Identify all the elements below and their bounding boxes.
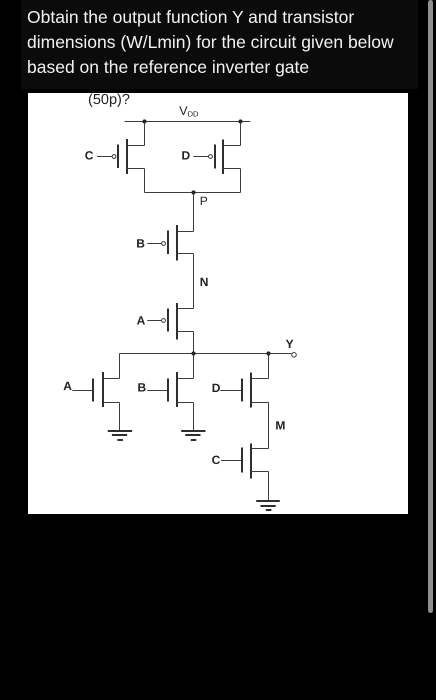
svg-text:B: B [138, 380, 147, 394]
wire A source to ground [119, 403, 121, 431]
wire A drain down to Y rail [193, 332, 195, 354]
source stub [223, 145, 241, 147]
svg-text:Y: Y [286, 337, 294, 351]
ground B [181, 430, 205, 432]
transistor B (NMOS bottom-middle) [138, 354, 206, 441]
junction dot Y-D [266, 351, 270, 355]
ground C [256, 500, 280, 502]
source stub [251, 402, 269, 404]
gate wire [147, 390, 167, 392]
gate wire [220, 390, 241, 392]
drain stub [177, 331, 194, 333]
channel bar [102, 372, 104, 407]
transistor A (PMOS middle-lower) [137, 303, 194, 354]
ground A [108, 430, 132, 432]
source stub [251, 471, 269, 473]
gate bar [167, 231, 169, 255]
junction dot P [191, 190, 195, 194]
svg-text:A: A [137, 314, 146, 328]
svg-text:A: A [63, 379, 72, 393]
wire Y rail down to A drain [119, 354, 121, 379]
transistor D (PMOS top-right) [182, 122, 241, 193]
drain stub [103, 378, 120, 380]
gate bar [241, 448, 243, 473]
channel bar [176, 372, 178, 407]
output terminal Y [292, 353, 297, 358]
PMOS bubble [162, 319, 166, 323]
svg-text:(50p)?: (50p)? [88, 93, 130, 108]
wire B source to ground [193, 403, 195, 431]
source stub [177, 308, 194, 310]
channel bar [176, 303, 178, 340]
gate bar [167, 309, 169, 332]
drain stub [251, 448, 269, 450]
transistor A (NMOS bottom-left) [63, 354, 132, 441]
PMOS bubble [112, 155, 116, 159]
transistor B (PMOS middle) [136, 225, 193, 309]
gate bar [241, 379, 243, 402]
junction dot VDD-C [142, 119, 146, 123]
gate wire [221, 460, 241, 462]
source stub [127, 145, 145, 147]
wire B drain down to A [193, 254, 195, 309]
wire Y rail down to B drain [193, 354, 195, 379]
wire C source to ground [268, 472, 270, 501]
gate bar [167, 379, 169, 402]
wire VDD to D source [240, 122, 242, 146]
gate wire [97, 156, 112, 158]
source stub [177, 402, 194, 404]
svg-text:C: C [212, 453, 221, 467]
channel bar [250, 444, 252, 479]
svg-text:M: M [275, 419, 285, 433]
wire D source down to C (node M) [268, 403, 270, 449]
channel bar [126, 139, 128, 174]
PMOS bubble [209, 155, 213, 159]
svg-text:D: D [182, 148, 191, 162]
channel bar [222, 140, 224, 175]
drain stub [177, 253, 194, 255]
drain stub [127, 168, 145, 170]
gate wire [193, 156, 208, 158]
node P rail [145, 192, 241, 194]
channel bar [176, 225, 178, 261]
drain stub [251, 378, 269, 380]
svg-text:B: B [136, 236, 145, 250]
svg-text:N: N [200, 275, 209, 289]
svg-text:P: P [200, 194, 208, 208]
transistor D (NMOS bottom-right) [212, 354, 286, 449]
gate wire [147, 243, 161, 245]
gate bar [214, 145, 216, 169]
svg-text:D: D [212, 381, 221, 395]
svg-text:VDD: VDD [179, 104, 199, 118]
drain stub [177, 378, 194, 380]
transistor C (PMOS top-left) [85, 122, 145, 193]
gate wire [147, 320, 161, 322]
transistor C (NMOS bottom) [212, 444, 280, 511]
junction dot VDD-D [238, 119, 242, 123]
VDD rail [125, 121, 251, 123]
drain stub [223, 168, 241, 170]
gate wire [72, 390, 92, 392]
wire D drain down [240, 169, 242, 193]
PMOS bubble [162, 242, 166, 246]
source stub [103, 402, 120, 404]
junction dot Y-B [191, 351, 195, 355]
wire VDD to C source [144, 122, 146, 146]
svg-text:C: C [85, 148, 94, 162]
wire P down to B [193, 193, 195, 232]
wire C drain down [144, 169, 146, 193]
node Y rail [120, 353, 292, 355]
channel bar [250, 373, 252, 408]
gate bar [117, 145, 119, 169]
wire Y rail down to D drain [268, 354, 270, 379]
source stub [177, 231, 194, 233]
gate bar [92, 379, 94, 402]
